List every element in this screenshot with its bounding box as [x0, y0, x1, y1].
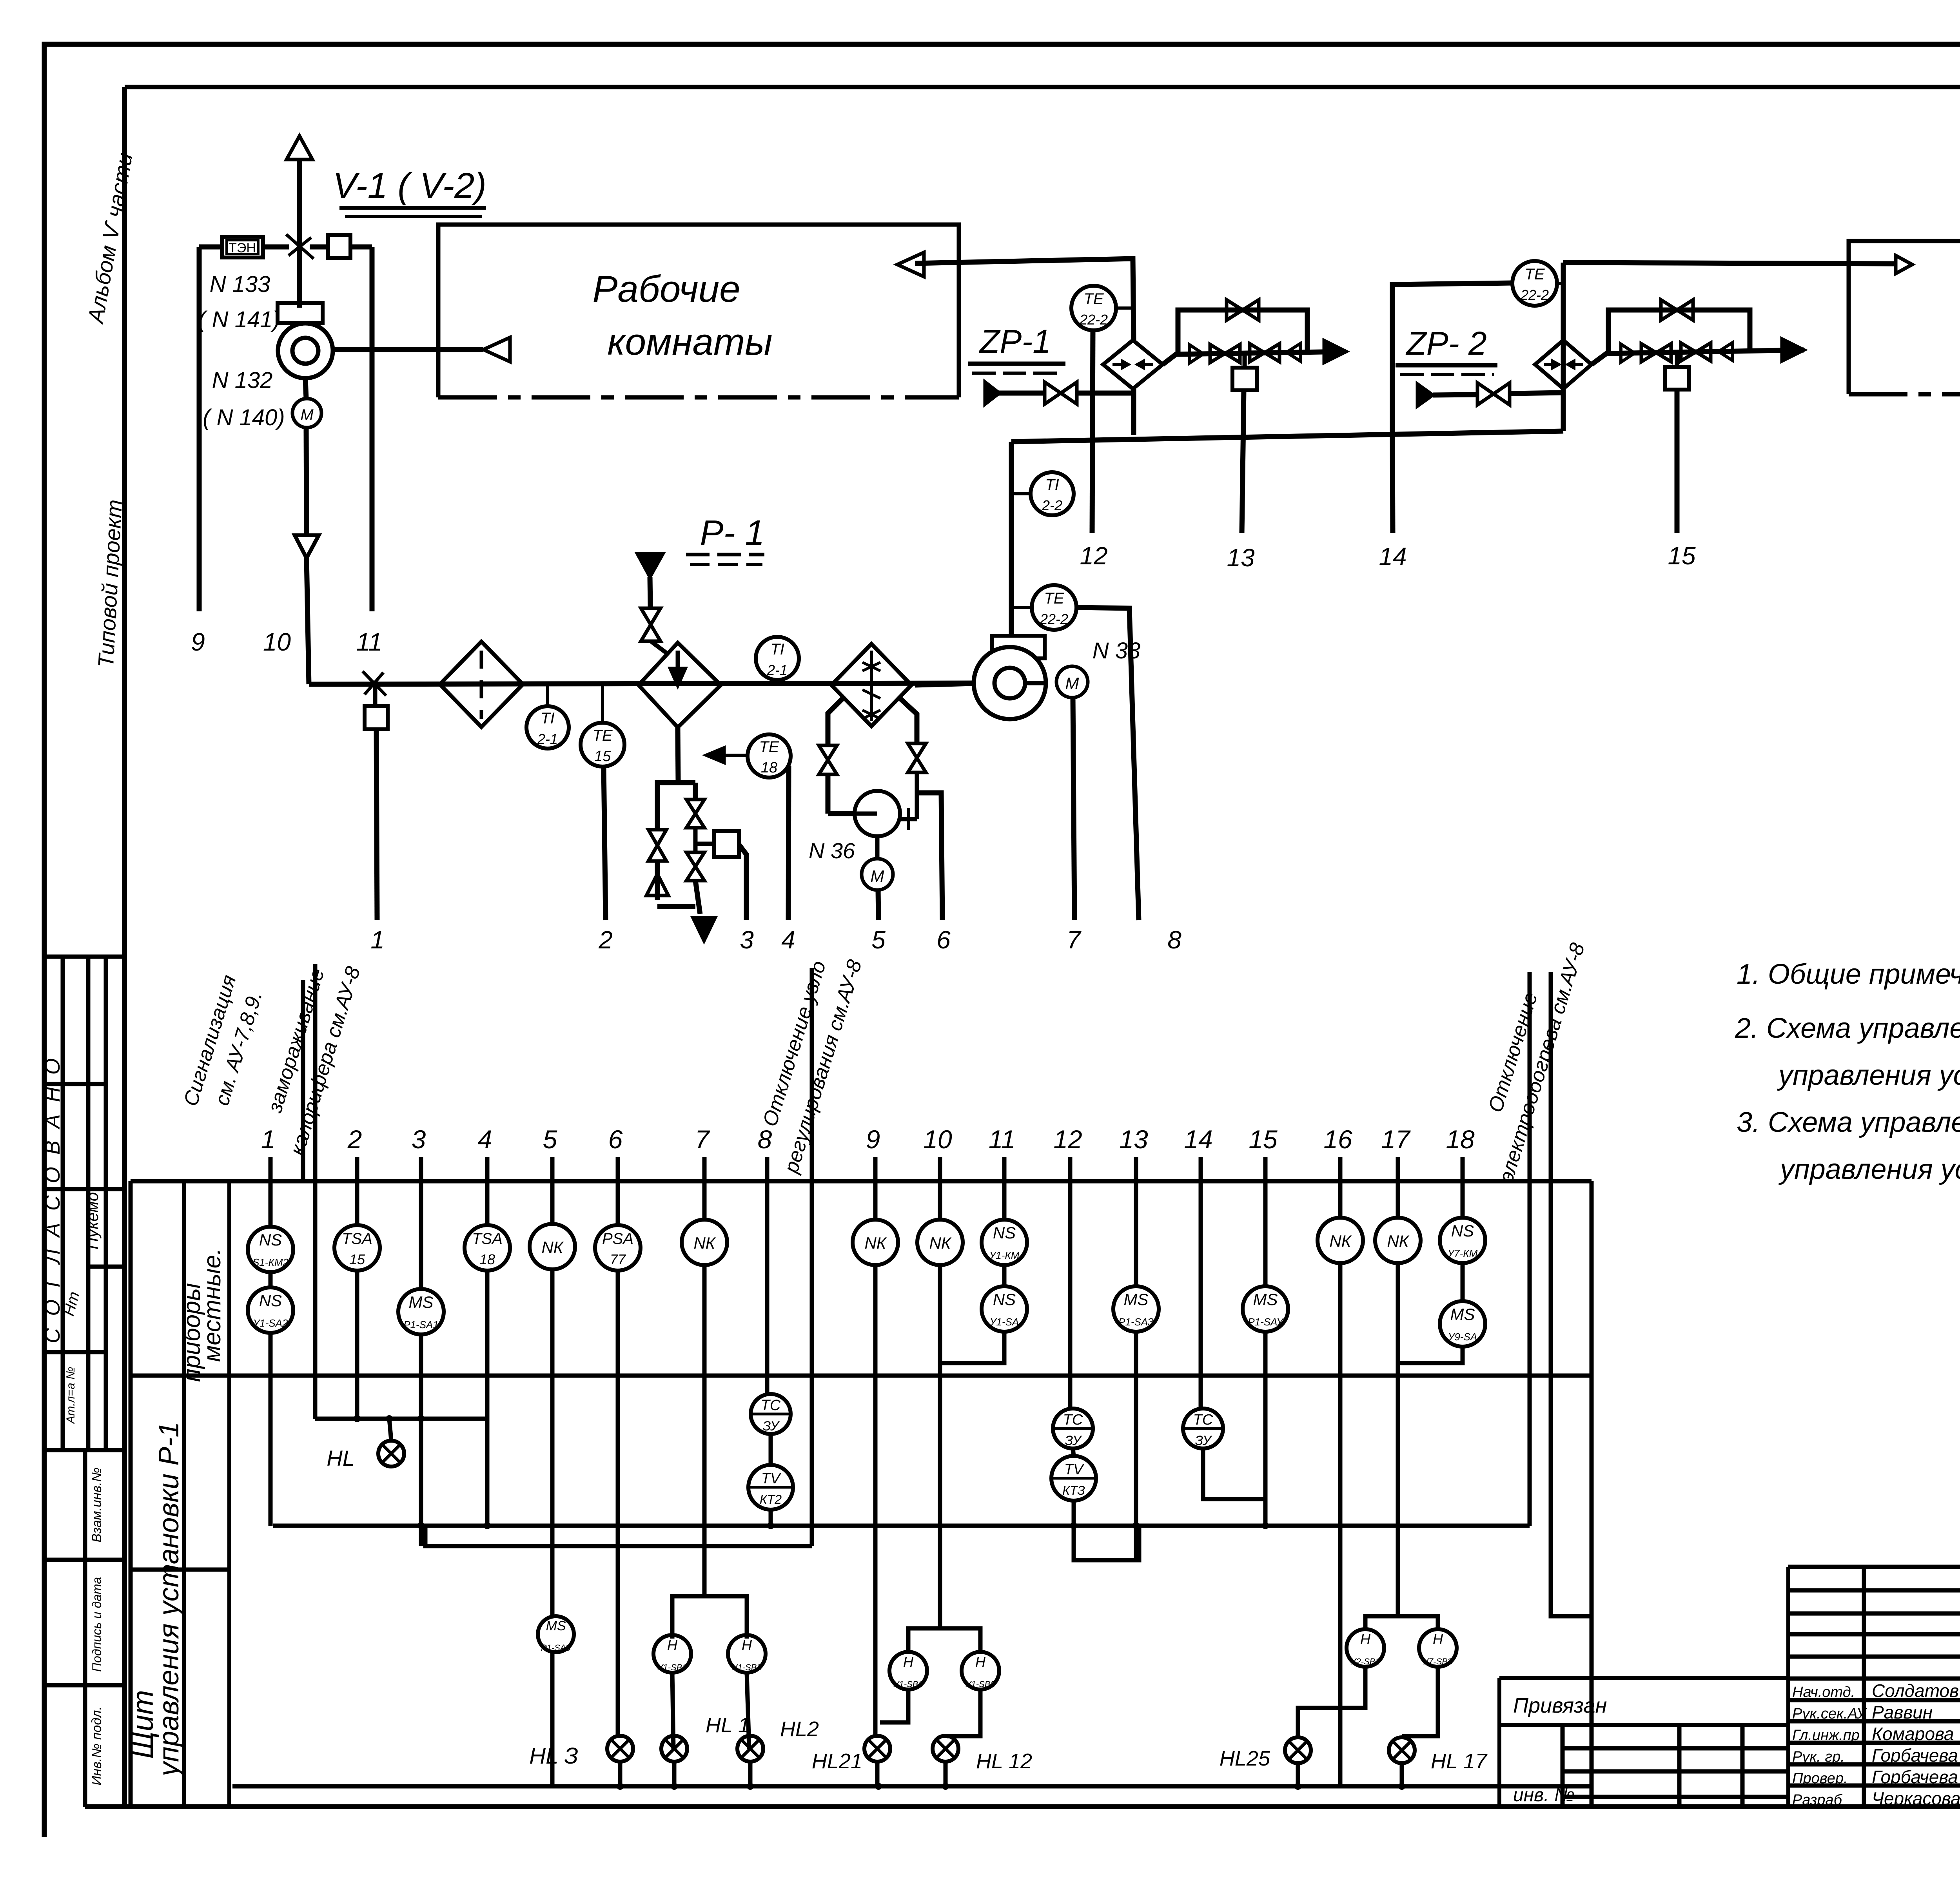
svg-text:NК: NК: [1387, 1232, 1409, 1250]
svg-text:ZР-1: ZР-1: [979, 323, 1051, 360]
lamp HL21: [864, 1736, 890, 1762]
wire horiz 2: [425, 1526, 812, 1546]
svg-text:ТС: ТС: [1193, 1412, 1213, 1428]
ZP-2 chain valve 2: [1681, 343, 1696, 361]
button H 41-SB2: [962, 1652, 999, 1690]
wire 14 leader: [1392, 432, 1393, 533]
svg-text:S1-КМ2: S1-КМ2: [252, 1256, 289, 1268]
lamp HL1: [661, 1736, 687, 1762]
svg-text:ТЕ: ТЕ: [759, 738, 779, 756]
col13 wire: [1134, 1181, 1138, 1286]
supply main line to ZP units: [1011, 431, 1563, 442]
P-1 inlet damper actuator: [365, 706, 388, 729]
wire отключение электрообогрева leader 1: [1528, 972, 1532, 1526]
instrument TV KT2: [748, 1465, 793, 1510]
svg-text:4: 4: [478, 1125, 492, 1154]
svg-text:У9-SА: У9-SА: [1448, 1331, 1477, 1343]
pump outlet tick: [900, 817, 917, 821]
svg-text:Разраб: Разраб: [1792, 1792, 1843, 1808]
svg-text:11: 11: [989, 1125, 1016, 1154]
instrument NK col5: [530, 1224, 575, 1269]
sensor TE 22-2 on riser: [1032, 585, 1076, 630]
panel lamp HL: [389, 1419, 391, 1441]
wire 4 leader: [788, 766, 789, 920]
outside air intake funnel: [295, 535, 319, 558]
svg-text:У1-SВ3: У1-SВ3: [731, 1662, 762, 1672]
svg-text:М: М: [871, 867, 884, 885]
svg-text:Р1-SАЗ: Р1-SАЗ: [1118, 1316, 1154, 1328]
svg-text:Р1-SАУ: Р1-SАУ: [1248, 1316, 1284, 1328]
wire 1 leader: [376, 729, 377, 920]
svg-text:У1-SВ1: У1-SВ1: [893, 1679, 923, 1689]
col4 wire: [485, 1181, 490, 1225]
cooler coil diamond: [831, 644, 911, 726]
jog under TV KT3: [1074, 1526, 1139, 1560]
cooler left pipe: [828, 698, 843, 745]
svg-text:РSА: РSА: [602, 1230, 633, 1247]
drain arrow down: [693, 918, 715, 941]
svg-text:ТI: ТI: [541, 710, 555, 727]
svg-text:Р1-SАЗ: Р1-SАЗ: [541, 1643, 571, 1653]
thermometer TI 2-1 above line: [756, 637, 799, 680]
svg-text:NS: NS: [259, 1231, 282, 1249]
instrument PSA 77: [595, 1225, 641, 1271]
svg-text:Подпись и дата: Подпись и дата: [90, 1577, 104, 1672]
wire 12 leader: [1092, 330, 1093, 533]
svg-text:ТС: ТС: [761, 1397, 781, 1414]
lamp HL2: [737, 1736, 763, 1762]
left margin table: [44, 955, 125, 959]
bypass up arrow: [646, 874, 668, 896]
col17 wire: [1396, 1181, 1400, 1218]
svg-text:ТSА: ТSА: [472, 1230, 503, 1247]
svg-text:13: 13: [1119, 1125, 1148, 1154]
heater TEN N133 line: [199, 245, 222, 250]
svg-text:14: 14: [1379, 542, 1406, 571]
wire horiz 1: [273, 1524, 1530, 1528]
air filter: [440, 642, 523, 727]
ZP-1 bypass: [1178, 310, 1307, 354]
wire 9 leader: [197, 247, 202, 611]
lamp HL12: [933, 1736, 958, 1762]
wire 11 leader: [370, 247, 375, 611]
instrument TSA 18: [465, 1225, 510, 1271]
bypass valve left: [648, 830, 666, 845]
instrument NK col9: [853, 1220, 898, 1265]
pump inlet: [828, 811, 855, 816]
instrument NK col16: [1318, 1218, 1363, 1263]
svg-text:НL25: НL25: [1220, 1747, 1270, 1770]
svg-text:18: 18: [479, 1251, 495, 1267]
svg-text:12: 12: [1053, 1125, 1082, 1154]
svg-text:( N 140): ( N 140): [203, 405, 285, 430]
svg-text:М: М: [300, 406, 314, 424]
title block privyazan box: [1497, 1678, 1501, 1807]
control valve actuator box P-1: [714, 831, 739, 857]
V-1 exhaust arrow to roof: [287, 136, 312, 160]
fan N132(N140): [278, 303, 323, 323]
table column stubs: [269, 1157, 273, 1181]
frost protection connector: [315, 1417, 489, 1421]
instrument MS P1-SA3: [1113, 1286, 1159, 1332]
svg-text:Н: Н: [667, 1637, 678, 1653]
col16 wire: [1338, 1181, 1343, 1218]
TE18 pointer: [706, 754, 748, 757]
ZP-1 fresh air arrow: [985, 382, 999, 404]
svg-text:Пукемо: Пукемо: [83, 1192, 102, 1249]
svg-text:N 36: N 36: [809, 838, 855, 863]
svg-text:Рук. гр.: Рук. гр.: [1792, 1749, 1845, 1765]
svg-text:NК: NК: [541, 1238, 564, 1256]
P-1 inlet damper cross: [363, 671, 386, 696]
svg-text:ТV: ТV: [1064, 1461, 1085, 1478]
svg-text:У1-SВ1: У1-SВ1: [657, 1662, 687, 1672]
heat supply arrow: [637, 554, 663, 577]
svg-text:ТI: ТI: [770, 641, 784, 658]
heater internal arrow: [676, 651, 680, 684]
svg-text:NS: NS: [993, 1290, 1016, 1309]
svg-text:2-1: 2-1: [537, 731, 558, 747]
drain valve 2: [686, 852, 704, 867]
svg-text:комнаты: комнаты: [607, 321, 772, 363]
svg-text:ТSА: ТSА: [342, 1230, 372, 1247]
svg-text:У1-SА: У1-SА: [989, 1316, 1019, 1328]
svg-text:N 133: N 133: [210, 272, 270, 297]
sensor TE 22-2 ZP-1: [1071, 286, 1116, 330]
svg-text:НL21: НL21: [812, 1749, 862, 1773]
svg-text:ТЭН: ТЭН: [229, 241, 256, 256]
room2 supply arrow: [1896, 256, 1912, 274]
svg-text:Провер.: Провер.: [1792, 1770, 1848, 1787]
svg-text:ЗУ: ЗУ: [1065, 1433, 1082, 1448]
svg-text:У1-SА2: У1-SА2: [253, 1317, 288, 1329]
instrument NK col7: [682, 1220, 727, 1265]
svg-text:Комарова: Комарова: [1872, 1724, 1954, 1744]
col18 wire: [1461, 1181, 1465, 1218]
svg-text:NК: NК: [1329, 1232, 1352, 1250]
junction dots lamp line: [617, 1783, 624, 1790]
ZP-2 actuator box: [1675, 352, 1679, 367]
heater return pipe: [678, 727, 678, 781]
svg-text:22-2: 22-2: [1079, 312, 1108, 328]
jog col14 to col15: [1203, 1448, 1265, 1499]
svg-text:9: 9: [191, 628, 205, 656]
table label divider 1: [182, 1181, 186, 1807]
instrument MS U9-SA: [1440, 1301, 1485, 1347]
damper cross on V-1 duct: [286, 234, 314, 259]
svg-text:ТЕ: ТЕ: [1524, 266, 1545, 283]
svg-text:Н: Н: [1360, 1631, 1371, 1647]
svg-text:Р1-SА1: Р1-SА1: [403, 1319, 439, 1331]
wire 8 leader: [1076, 607, 1139, 920]
svg-text:15: 15: [1668, 542, 1696, 570]
pump N36: [855, 791, 900, 836]
wire 3 leader: [739, 845, 746, 920]
svg-text:8: 8: [758, 1125, 772, 1154]
drain branch: [678, 780, 695, 785]
title signature grid: [1788, 1565, 1960, 1569]
svg-text:8: 8: [1167, 926, 1181, 954]
svg-text:22-2: 22-2: [1040, 611, 1068, 627]
sensor TE 18: [748, 734, 791, 778]
svg-text:7: 7: [695, 1125, 710, 1154]
svg-text:НL 12: НL 12: [976, 1749, 1032, 1773]
wire 10 leader: [306, 428, 307, 535]
button H 41-SB1: [889, 1652, 927, 1690]
heat supply pipe: [650, 577, 650, 607]
ZP-1 actuator box: [1243, 353, 1247, 368]
svg-text:2. Схема управления установк: 2. Схема управления установкой V-2 анало…: [1735, 1013, 1960, 1044]
svg-text:17: 17: [1381, 1125, 1411, 1154]
svg-text:12: 12: [1080, 542, 1107, 570]
svg-text:2: 2: [598, 926, 613, 954]
svg-text:ЗУ: ЗУ: [762, 1419, 780, 1434]
svg-text:местные.: местные.: [199, 1248, 226, 1362]
svg-text:У2-SВ1: У2-SВ1: [1350, 1657, 1380, 1666]
wire замораживание leader: [313, 964, 318, 1419]
svg-text:Солдатов: Солдатов: [1872, 1680, 1959, 1701]
svg-text:С О Г Л А С О В А Н О: С О Г Л А С О В А Н О: [41, 1055, 64, 1343]
lamp HL17: [1389, 1737, 1415, 1763]
svg-text:М: М: [1065, 674, 1079, 692]
col9 wire: [873, 1181, 878, 1220]
instrument NK col10: [917, 1220, 963, 1265]
instrument TC 3U col14: [1183, 1409, 1223, 1448]
table bottom lamp line: [232, 1784, 1592, 1789]
svg-text:18: 18: [761, 760, 777, 776]
col14 wire: [1199, 1181, 1203, 1409]
svg-text:V-1 ( V-2): V-1 ( V-2): [333, 166, 486, 206]
col7 wire: [702, 1181, 707, 1220]
svg-text:ТV: ТV: [761, 1470, 782, 1487]
wire 13 leader: [1242, 390, 1244, 533]
svg-text:КТ2: КТ2: [760, 1492, 782, 1506]
damper actuator V-1: [328, 235, 350, 258]
svg-text:Н: Н: [1433, 1631, 1443, 1647]
svg-text:У1-КМ: У1-КМ: [989, 1249, 1020, 1261]
instrument NS U7-KM: [1440, 1218, 1485, 1263]
thermometer TI 2-2: [1031, 472, 1074, 515]
cooler right valve: [908, 743, 926, 758]
svg-text:13: 13: [1227, 544, 1255, 572]
svg-text:ТЕ: ТЕ: [1044, 590, 1064, 607]
svg-text:3: 3: [412, 1125, 426, 1154]
bypass bottom: [657, 904, 695, 909]
instrument MS P1-SA1: [398, 1289, 444, 1334]
svg-text:N 132: N 132: [212, 368, 273, 393]
wire 5 leader: [878, 890, 878, 920]
table frame top: [131, 1179, 1592, 1184]
svg-text:инв. №: инв. №: [1513, 1785, 1575, 1806]
col2 wire: [355, 1181, 359, 1225]
inner drawing frame: [122, 87, 127, 1807]
table small divider: [131, 1568, 229, 1572]
svg-text:NК: NК: [693, 1234, 716, 1252]
svg-text:Н: Н: [975, 1654, 986, 1670]
motor M of pump N36: [862, 859, 893, 890]
wire 2 leader: [604, 767, 606, 920]
svg-text:МS: МS: [409, 1293, 434, 1311]
col8 wire: [765, 1181, 769, 1394]
svg-text:15: 15: [594, 748, 611, 765]
col1 wire: [269, 1181, 273, 1227]
svg-text:У7-SВЗ: У7-SВЗ: [1423, 1657, 1453, 1666]
col11 wire: [1002, 1181, 1007, 1220]
svg-text:У1-SВ2: У1-SВ2: [965, 1679, 995, 1689]
ZP-1 chain valve single: [1287, 343, 1301, 361]
svg-text:10: 10: [263, 628, 291, 656]
valve on heat supply: [641, 608, 661, 625]
room box 2 Рабочие комнаты: [1849, 241, 1960, 394]
svg-text:2-2: 2-2: [1042, 497, 1062, 513]
drain valve 1: [686, 799, 704, 814]
ZP-2 heat exchanger: [1535, 340, 1592, 389]
svg-text:16: 16: [1323, 1125, 1352, 1154]
svg-text:Нач.отд.: Нач.отд.: [1792, 1684, 1855, 1700]
svg-text:NК: NК: [864, 1234, 887, 1252]
ZP-2 chain valve 1: [1641, 344, 1656, 362]
button H U1-SB3: [728, 1635, 766, 1673]
wire 6 branch: [917, 793, 942, 920]
svg-text:4: 4: [781, 926, 795, 954]
lamp HL25: [1285, 1737, 1311, 1763]
svg-text:НL З: НL З: [529, 1743, 578, 1769]
svg-text:2-1: 2-1: [767, 662, 788, 678]
svg-text:Гл.инж.пр: Гл.инж.пр: [1792, 1727, 1860, 1744]
ZP-1 bypass valve: [1227, 300, 1243, 320]
svg-text:NS: NS: [1451, 1222, 1474, 1240]
svg-text:3. Схема управления установк: 3. Схема управления установкой V-8 анало…: [1737, 1107, 1960, 1138]
svg-text:Рабочие: Рабочие: [593, 268, 740, 310]
cooler left valve: [819, 745, 837, 760]
sensor TE 22-2 ZP-2: [1512, 261, 1557, 306]
ZP-1 heat exchanger: [1103, 340, 1163, 389]
bypass left branch: [657, 783, 678, 829]
ZP-1 chain check: [1190, 345, 1203, 363]
grille arrow room 1: [483, 337, 510, 362]
room1 exhaust line: [915, 259, 1134, 340]
svg-text:NS: NS: [259, 1291, 282, 1310]
supply riser from fan N33: [1009, 442, 1014, 636]
col5 wire: [550, 1181, 555, 1224]
instrument NK col17: [1375, 1218, 1421, 1263]
svg-text:11: 11: [356, 628, 382, 656]
table row divider: [131, 1374, 1592, 1378]
svg-text:ЗУ: ЗУ: [1195, 1433, 1212, 1448]
svg-text:6: 6: [608, 1125, 623, 1154]
ZP-1 duct lower: [1131, 389, 1136, 435]
svg-text:ТС: ТС: [1063, 1412, 1083, 1428]
svg-text:КТЗ: КТЗ: [1062, 1483, 1085, 1497]
svg-text:Привязан: Привязан: [1513, 1694, 1607, 1717]
wire сигнализация leader: [301, 980, 305, 1181]
motor M of fan N33: [1056, 666, 1088, 698]
table left edge: [129, 1181, 133, 1807]
svg-text:Взам.инв.№: Взам.инв.№: [89, 1467, 104, 1542]
table label divider 2: [227, 1181, 231, 1807]
ZP-2 bypass: [1608, 310, 1750, 353]
instrument NS S1-KM2: [248, 1227, 293, 1272]
fan N33: [992, 636, 1045, 658]
button H U7-SB2: [1419, 1629, 1457, 1667]
svg-text:10: 10: [923, 1125, 952, 1154]
ZP-2 outlet chain: [1592, 350, 1804, 364]
svg-text:управления установки “V-7” и: управления установки “V-7” и условно не …: [1778, 1154, 1960, 1185]
instrument TC 3U col12: [1053, 1409, 1093, 1448]
svg-text:14: 14: [1184, 1125, 1212, 1154]
wire 15 leader: [1675, 390, 1680, 533]
svg-text:МS: МS: [1450, 1305, 1475, 1323]
ZP-1 discharge arrow: [1324, 341, 1346, 363]
P-1 main duct line: [309, 683, 974, 684]
svg-text:НL: НL: [327, 1446, 355, 1470]
svg-text:77: 77: [610, 1251, 626, 1267]
col10 wire: [938, 1181, 942, 1220]
motor M of fan N132: [292, 399, 321, 428]
thermometer TI 2-1 local: [526, 706, 569, 749]
instrument NS U1-SA2: [248, 1287, 293, 1333]
instrument NS U1-KM: [982, 1220, 1027, 1265]
fan N132 outlet line to room: [333, 347, 483, 352]
svg-text:ТI: ТI: [1045, 476, 1059, 493]
svg-text:Раввин: Раввин: [1872, 1702, 1933, 1722]
svg-text:управления установки Р-1: управления установки Р-1: [153, 1422, 185, 1778]
svg-text:НL 1: НL 1: [706, 1713, 750, 1737]
svg-text:6: 6: [936, 926, 951, 954]
ZP-2 feed riser: [1392, 283, 1512, 432]
svg-text:Р- 1: Р- 1: [700, 513, 764, 553]
svg-text:15: 15: [1249, 1125, 1278, 1154]
svg-text:НL 17: НL 17: [1431, 1749, 1488, 1773]
svg-text:МS: МS: [1253, 1290, 1278, 1309]
col12 wire: [1068, 1181, 1073, 1409]
connector col18 to col17: [1398, 1347, 1463, 1363]
svg-text:22-2: 22-2: [1520, 287, 1549, 303]
H buttons loop col7: [672, 1596, 747, 1639]
svg-text:NS: NS: [993, 1224, 1016, 1242]
button H U7-SB1: [1347, 1629, 1384, 1667]
svg-text:( N 141): ( N 141): [198, 307, 280, 332]
lamp HL3: [607, 1736, 633, 1762]
instrument TV KT3: [1051, 1456, 1096, 1501]
svg-text:Инв.№ подл.: Инв.№ подл.: [89, 1706, 104, 1786]
instrument TSA 15: [334, 1225, 380, 1271]
heater coil diamond: [639, 643, 721, 727]
supply line to room 2: [1563, 263, 1896, 264]
svg-text:НL2: НL2: [780, 1717, 819, 1741]
wire отключение узла leader: [810, 968, 814, 1546]
ZP-2 fresh air valve line: [1433, 395, 1477, 395]
svg-text:15: 15: [349, 1251, 365, 1267]
svg-text:Рук.сек.АУ: Рук.сек.АУ: [1792, 1706, 1867, 1722]
svg-text:ZР- 2: ZР- 2: [1405, 325, 1486, 362]
svg-text:Черкасова: Черкасова: [1872, 1788, 1960, 1809]
V-1 exhaust duct: [297, 160, 302, 308]
svg-text:5: 5: [543, 1125, 557, 1154]
instrument TC 3U col8: [751, 1394, 791, 1434]
instrument MS P1-SA3 switch: [538, 1616, 574, 1652]
ZP-2 chain valve single: [1719, 343, 1733, 361]
ZP-2 fresh air arrow: [1417, 384, 1433, 406]
connector col11 to col10: [940, 1347, 1004, 1363]
ZP-1 chain valve 1: [1210, 344, 1225, 363]
svg-text:Горбачева: Горбачева: [1872, 1745, 1958, 1766]
svg-text:МS: МS: [1124, 1290, 1149, 1309]
svg-text:МS: МS: [546, 1619, 566, 1633]
svg-text:1: 1: [370, 926, 385, 954]
electric heater TEN N133(N141): [222, 237, 263, 257]
ZP-2 duct vertical: [1561, 263, 1566, 431]
